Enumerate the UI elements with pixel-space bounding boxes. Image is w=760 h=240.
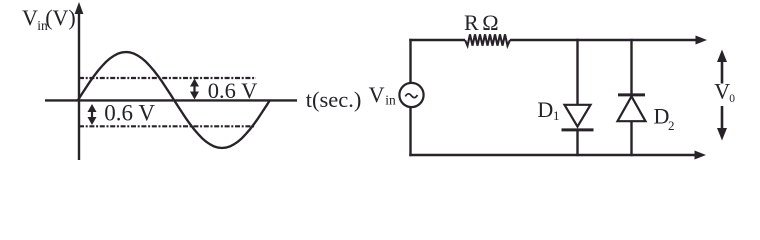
svg-text:2: 2 bbox=[668, 118, 675, 133]
wire : D1 branch top bbox=[576, 39, 578, 105]
wire : sine waveform of Vin bbox=[78, 52, 270, 148]
node label Vin(V) bbox=[22, 5, 76, 33]
svg-text:Ω: Ω bbox=[482, 10, 498, 35]
svg-text:(V): (V) bbox=[45, 5, 76, 30]
resistor R bbox=[465, 34, 510, 45]
wire : D1 branch bottom bbox=[576, 130, 578, 156]
node upper 0.6V measure arrow bbox=[190, 79, 199, 100]
diode D1 bbox=[562, 105, 594, 130]
wire : D2 branch bottom bbox=[630, 121, 632, 156]
wire : bottom wire with output arrow bbox=[409, 151, 706, 160]
node V0 up arrow bbox=[717, 50, 727, 84]
svg-text:in: in bbox=[385, 93, 396, 108]
node Vin-axis : vertical V axis of waveform plot bbox=[75, 2, 84, 160]
wire : top wire from resistor to output with arrow bbox=[510, 36, 707, 45]
node V0 down arrow bbox=[717, 106, 727, 141]
label Vin bbox=[369, 82, 396, 108]
diode D2 bbox=[618, 95, 646, 121]
wire : D2 branch top bbox=[630, 39, 632, 96]
svg-text:V: V bbox=[369, 82, 385, 107]
svg-text:R: R bbox=[464, 10, 479, 35]
wire : top wire from source to resistor bbox=[409, 39, 465, 41]
node +0.6V level dash-dot line bbox=[79, 77, 256, 79]
svg-text:V: V bbox=[22, 5, 38, 30]
svg-text:D: D bbox=[654, 103, 670, 128]
svg-text:0.6 V: 0.6 V bbox=[208, 78, 258, 103]
svg-text:D: D bbox=[537, 97, 553, 122]
wire : left vertical from top wire to source bbox=[409, 39, 411, 84]
svg-text:0.6 V: 0.6 V bbox=[104, 101, 155, 126]
svg-text:t(sec.): t(sec.) bbox=[306, 87, 362, 112]
label D2 bbox=[654, 103, 675, 133]
label D1 bbox=[537, 97, 559, 123]
svg-text:0: 0 bbox=[729, 93, 735, 105]
source Vin AC symbol bbox=[399, 83, 423, 107]
node -0.6V level dash-dot line bbox=[79, 125, 255, 127]
label V0 bbox=[714, 79, 735, 106]
node t-axis : horizontal time axis bbox=[45, 99, 297, 101]
svg-text:V: V bbox=[714, 79, 730, 104]
node lower 0.6V measure arrow bbox=[88, 104, 97, 125]
svg-text:1: 1 bbox=[553, 108, 560, 123]
wire : left vertical from source to bottom wire bbox=[409, 108, 411, 157]
